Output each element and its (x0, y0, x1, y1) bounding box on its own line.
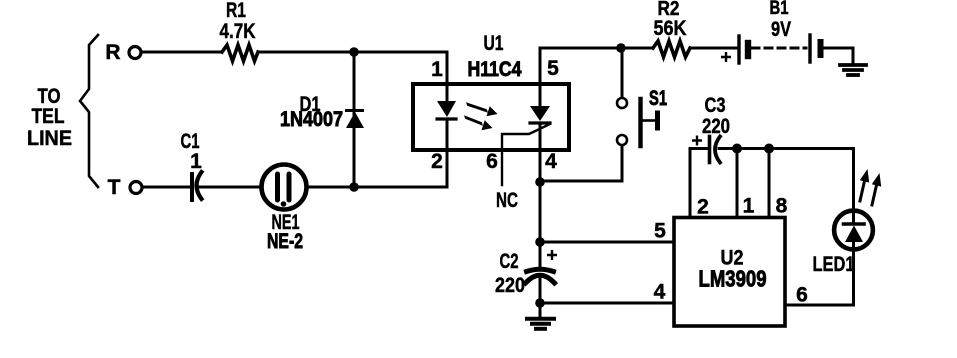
svg-text:220: 220 (495, 274, 525, 297)
svg-text:H11C4: H11C4 (468, 58, 522, 81)
svg-text:4.7K: 4.7K (220, 20, 256, 43)
svg-text:R1: R1 (226, 0, 246, 22)
svg-text:S1: S1 (649, 87, 667, 110)
svg-text:4: 4 (654, 281, 666, 304)
svg-text:NE-2: NE-2 (267, 230, 303, 253)
svg-text:2: 2 (431, 150, 443, 173)
svg-text:4: 4 (545, 150, 557, 173)
svg-text:C3: C3 (705, 94, 726, 117)
svg-text:1: 1 (743, 195, 755, 218)
svg-text:1N4007: 1N4007 (280, 108, 343, 131)
svg-text:220: 220 (702, 115, 730, 138)
svg-text:LM3909: LM3909 (699, 266, 767, 292)
svg-text:LED1: LED1 (813, 253, 855, 276)
svg-text:TEL: TEL (32, 105, 65, 128)
svg-text:T: T (108, 176, 121, 199)
svg-text:B1: B1 (770, 0, 789, 19)
svg-text:9V: 9V (771, 18, 791, 41)
svg-text:NC: NC (496, 189, 518, 212)
svg-text:8: 8 (776, 195, 788, 218)
svg-text:6: 6 (796, 284, 808, 307)
svg-text:6: 6 (486, 150, 498, 173)
svg-text:56K: 56K (654, 17, 687, 40)
svg-text:U1: U1 (484, 32, 504, 55)
svg-text:1: 1 (190, 150, 202, 173)
svg-text:R: R (105, 41, 120, 64)
svg-text:5: 5 (654, 220, 666, 243)
svg-text:2: 2 (697, 196, 709, 219)
svg-text:1: 1 (431, 58, 443, 81)
svg-text:LINE: LINE (27, 127, 72, 150)
svg-text:5: 5 (547, 57, 559, 80)
svg-text:C2: C2 (500, 250, 519, 273)
